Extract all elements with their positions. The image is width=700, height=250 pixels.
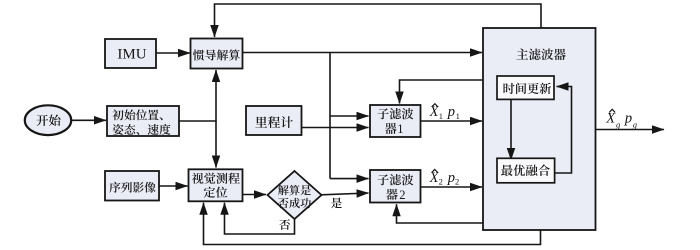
svg-text:1: 1 xyxy=(439,111,443,121)
wire initial-state output tee xyxy=(179,120,217,122)
wire branch into sub-filter2 upper input xyxy=(330,178,369,180)
decision diamond 解算是否成功 xyxy=(268,171,322,219)
wire branch into sub-filter1 upper input xyxy=(330,115,369,117)
svg-text:g: g xyxy=(633,119,637,129)
wire main filter output xyxy=(596,129,665,131)
svg-text:IMU: IMU xyxy=(117,47,146,63)
label X2 p2 sub-filter2 output estimate xyxy=(429,170,455,186)
wire start ellipse to initial-state box xyxy=(71,119,106,121)
svg-text:1: 1 xyxy=(456,111,460,121)
wire sub-filter2 output to main filter xyxy=(421,186,483,188)
svg-text:2: 2 xyxy=(399,188,405,202)
label yes 是 xyxy=(331,198,342,209)
wire time-update down to optimal-fusion xyxy=(510,99,512,160)
wire tee down into visual-odometry top xyxy=(215,121,217,168)
svg-text:X: X xyxy=(605,111,616,127)
label X1 p1 sub-filter1 output estimate xyxy=(429,104,455,120)
main filter box 主滤波器 xyxy=(483,28,596,230)
box initial position/attitude/velocity 初始位置、姿态、速度 xyxy=(107,106,179,136)
svg-text:p: p xyxy=(447,170,455,186)
svg-text:2: 2 xyxy=(439,176,443,186)
wire odometer to sub-filter1 lower input xyxy=(302,127,369,129)
box odometer 里程计 xyxy=(246,106,302,135)
box visual odometry positioning 视觉测程定位 xyxy=(189,169,243,201)
svg-text:p: p xyxy=(624,111,632,127)
wire top feedback from main filter top to inertial-nav top xyxy=(215,4,542,37)
box IMU xyxy=(105,39,156,68)
wire inertial-nav output to main filter xyxy=(243,52,483,54)
wire long feedback from main-filter bottom to visual-odometry bottom xyxy=(204,203,541,245)
wire sequence-images to visual-odometry xyxy=(159,185,188,187)
box sub-filter 2 子滤波器2 xyxy=(370,170,421,203)
label Xg pg global output estimate xyxy=(605,111,632,127)
svg-text:g: g xyxy=(616,119,620,129)
label no 否 xyxy=(279,219,290,230)
box optimal fusion 最优融合 xyxy=(497,158,555,183)
wire diamond yes-branch to sub-filter2 xyxy=(322,193,369,195)
box sequence images 序列影像 xyxy=(105,171,159,201)
wire main-filter feedback to sub-filter2 bottom xyxy=(397,204,484,223)
wire optimal-fusion feedback to time-update xyxy=(555,87,572,174)
start ellipse 开始 xyxy=(25,105,71,135)
wire sub-filter1 output to main filter xyxy=(421,120,483,122)
wire visual-odometry to decision diamond xyxy=(243,194,267,196)
box sub-filter 1 子滤波器1 xyxy=(370,105,421,137)
wire vertical branch from inertial-nav output line xyxy=(329,53,331,179)
wire tee up into inertial-nav bottom xyxy=(215,70,217,121)
box inertial navigation solution 惯导解算 xyxy=(191,39,243,69)
wire diamond no-branch loop back to visual-odometry bottom xyxy=(225,203,295,234)
wire IMU to inertial-nav box xyxy=(156,52,190,54)
svg-text:p: p xyxy=(447,104,455,120)
svg-text:1: 1 xyxy=(397,122,403,136)
svg-text:2: 2 xyxy=(455,176,459,186)
box time update 时间更新 xyxy=(497,76,554,99)
wire main-filter feedback to sub-filter1 top xyxy=(400,80,484,104)
